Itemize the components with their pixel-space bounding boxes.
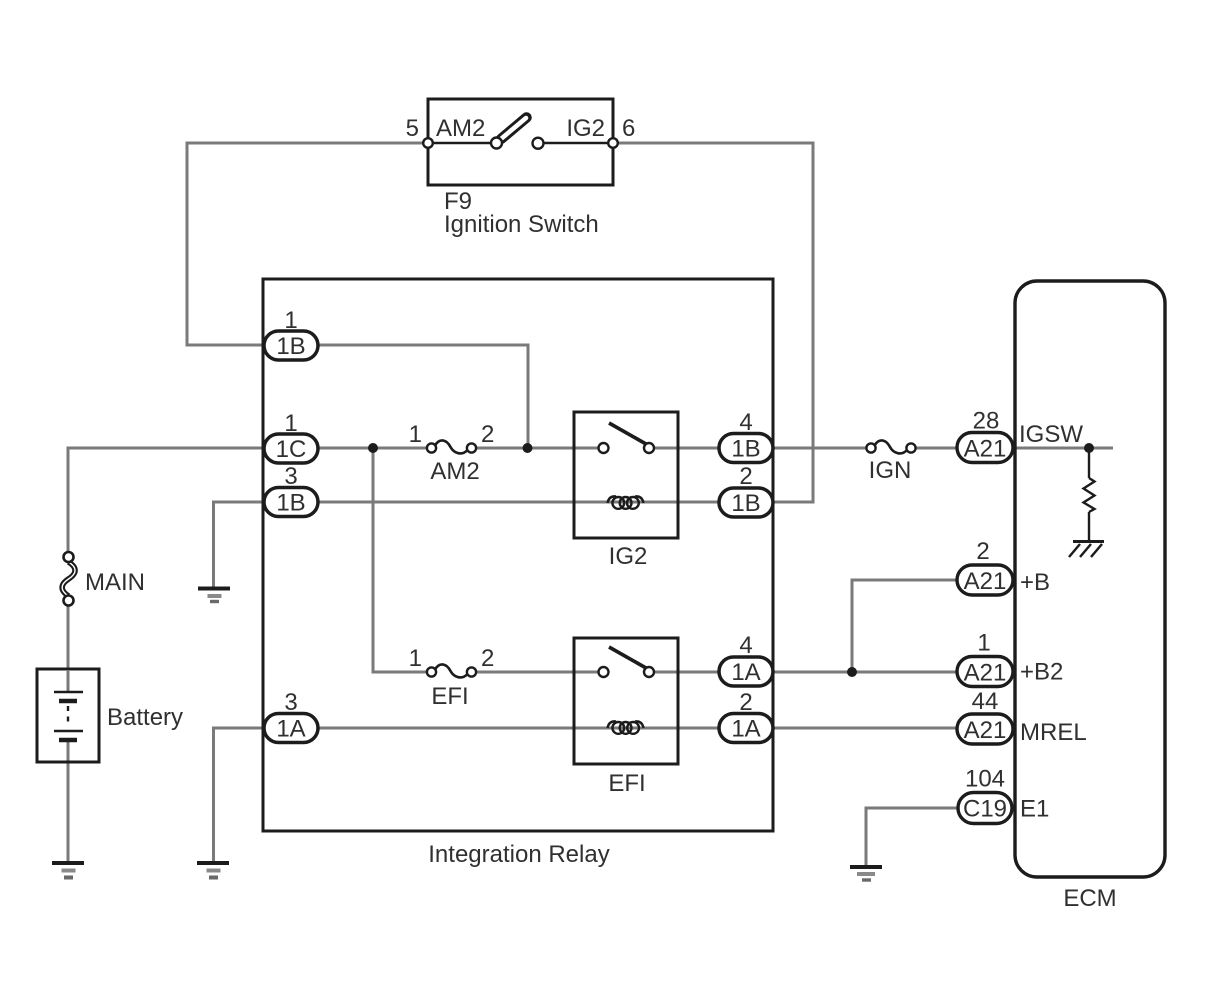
- svg-text:1A: 1A: [731, 659, 760, 686]
- wire: battery feed 1C row left: [68, 448, 264, 553]
- battery: [37, 669, 99, 762]
- svg-text:MAIN: MAIN: [85, 569, 145, 596]
- svg-text:MREL: MREL: [1020, 719, 1087, 746]
- svg-text:4: 4: [739, 409, 752, 436]
- wire: IG2 switch to 1B(4): [653, 447, 719, 450]
- node: +B / +B2 junction: [847, 667, 857, 677]
- svg-text:C19: C19: [963, 796, 1007, 823]
- wire: ignition switch pin5 to left vertical: [187, 143, 428, 345]
- ECM box: [1015, 281, 1165, 877]
- wire: 1C to AM2 fuse: [318, 447, 428, 450]
- svg-text:2: 2: [481, 645, 494, 672]
- relay IG2 switch blade: [609, 423, 646, 444]
- svg-text:A21: A21: [964, 436, 1007, 463]
- svg-text:E1: E1: [1020, 796, 1049, 823]
- svg-text:1: 1: [284, 307, 297, 334]
- svg-text:44: 44: [972, 688, 999, 715]
- ignition switch pin 6 terminal: [608, 138, 618, 148]
- wire: AM2 node down to EFI fuse: [373, 448, 428, 672]
- svg-text:2: 2: [739, 463, 752, 490]
- fuse EFI: [427, 664, 476, 677]
- relay IG2 switch contact left: [599, 443, 609, 453]
- wire: 1A(2) to ECM A21-44 MREL: [773, 727, 957, 730]
- wire: +B branch from node to A21-2: [852, 580, 957, 672]
- integration relay box: [263, 279, 773, 831]
- svg-text:104: 104: [965, 766, 1005, 793]
- relay IG2 coil: [608, 496, 644, 508]
- svg-text:ECM: ECM: [1063, 885, 1116, 912]
- ground: relay 1B(3): [198, 589, 230, 602]
- ignition switch F9 box: [428, 99, 613, 185]
- svg-text:Battery: Battery: [107, 704, 183, 731]
- svg-text:Ignition Switch: Ignition Switch: [444, 211, 599, 238]
- relay EFI switch contact right: [644, 667, 654, 677]
- relay EFI coil: [608, 721, 644, 733]
- ground: ECM E1: [850, 867, 882, 880]
- svg-text:EFI: EFI: [608, 770, 645, 797]
- wire: ignition switch pin6 to right vertical down to relay 1B(2): [613, 143, 813, 502]
- svg-text:6: 6: [622, 115, 635, 142]
- wire: MAIN link to battery: [67, 605, 70, 670]
- svg-text:A21: A21: [964, 717, 1007, 744]
- wire: battery to ground: [67, 740, 70, 862]
- wire: AM2 fuse to IG2 relay switch: [475, 447, 599, 450]
- wire: 1A(3) to ground: [214, 728, 265, 862]
- relay IG2 switch contact right: [644, 443, 654, 453]
- wire: 1A(4) to ECM A21-1 +B2: [773, 671, 957, 674]
- svg-text:1B: 1B: [276, 333, 305, 360]
- svg-text:4: 4: [739, 632, 752, 659]
- wire: 1B(4) to IGN fuse: [773, 447, 867, 450]
- svg-text:1: 1: [284, 410, 297, 437]
- svg-text:A21: A21: [964, 568, 1007, 595]
- ignition switch lever blade: [501, 118, 527, 140]
- connector A21 pin28 IGSW: [957, 433, 1013, 463]
- svg-text:2: 2: [481, 421, 494, 448]
- connector 1A pin3 left: [264, 714, 318, 743]
- MAIN fusible link: [62, 552, 75, 606]
- svg-text:IG2: IG2: [609, 543, 648, 570]
- svg-text:2: 2: [739, 689, 752, 716]
- connector 1C pin1 left: [264, 434, 318, 463]
- wire: IGN fuse to ECM A21-28: [916, 447, 958, 450]
- svg-text:1: 1: [409, 645, 422, 672]
- wire: relay 1B(1) to AM2 fuse output node: [318, 345, 528, 448]
- svg-text:1B: 1B: [276, 490, 305, 517]
- connector 1A pin2 right: [719, 714, 773, 743]
- chassis ground for resistor: [1069, 542, 1104, 558]
- wire: EFI switch to 1A(4): [653, 671, 719, 674]
- relay EFI box: [574, 638, 678, 764]
- relay IG2 box: [574, 412, 678, 538]
- relay EFI switch blade: [609, 647, 646, 668]
- connector 1B pin3 left: [264, 488, 318, 517]
- ignition switch pin 5 terminal: [423, 138, 433, 148]
- svg-text:1: 1: [409, 421, 422, 448]
- svg-text:+B2: +B2: [1020, 659, 1063, 686]
- connector 1B pin2 right: [719, 488, 773, 517]
- svg-text:AM2: AM2: [430, 458, 479, 485]
- relay EFI switch contact left: [599, 667, 609, 677]
- ignition switch internal wire: [428, 142, 613, 144]
- node: AM2 fuse input junction: [368, 443, 378, 453]
- connector 1A pin4 right: [719, 657, 773, 686]
- fuse AM2: [427, 440, 476, 453]
- svg-text:+B: +B: [1020, 569, 1050, 596]
- connector A21 pin2 +B: [957, 565, 1013, 595]
- svg-text:1B: 1B: [731, 490, 760, 517]
- connector A21 pin1 +B2: [957, 657, 1013, 687]
- fuse IGN: [866, 440, 915, 453]
- ground: battery: [52, 863, 84, 878]
- svg-text:Integration Relay: Integration Relay: [428, 841, 609, 868]
- svg-text:5: 5: [406, 115, 419, 142]
- ground: relay 1A(3): [197, 863, 229, 878]
- connector C19 pin104 E1: [958, 793, 1012, 824]
- svg-text:1A: 1A: [731, 716, 760, 743]
- connector 1B pin1 left: [264, 331, 318, 360]
- svg-text:3: 3: [284, 689, 297, 716]
- connector 1B pin4 right: [719, 434, 773, 463]
- svg-text:EFI: EFI: [431, 683, 468, 710]
- wire: 1B(3) to ground: [214, 502, 265, 587]
- ignition switch contact AM2: [491, 138, 502, 149]
- wire: 1B(3) through IG2 coil to 1B(2): [318, 501, 719, 504]
- wire: IGSW internal to pull-down node: [1013, 447, 1113, 450]
- svg-text:IG2: IG2: [566, 115, 605, 142]
- wire: ECM C19 E1 to ground: [866, 808, 958, 866]
- svg-text:A21: A21: [964, 660, 1007, 687]
- svg-text:AM2: AM2: [436, 115, 485, 142]
- svg-text:1B: 1B: [731, 436, 760, 463]
- svg-text:IGN: IGN: [869, 457, 912, 484]
- node: AM2 fuse output junction: [523, 443, 533, 453]
- svg-text:1A: 1A: [276, 716, 305, 743]
- svg-text:28: 28: [973, 408, 1000, 435]
- resistor (IGSW pulldown): [1084, 448, 1095, 541]
- svg-text:2: 2: [976, 538, 989, 565]
- svg-text:1: 1: [977, 630, 990, 657]
- ignition switch contact IG2: [533, 138, 544, 149]
- svg-text:1C: 1C: [276, 436, 307, 463]
- svg-text:3: 3: [284, 463, 297, 490]
- svg-text:IGSW: IGSW: [1019, 421, 1083, 448]
- wire: 1A(3) through EFI coil to 1A(2): [318, 727, 719, 730]
- wire: EFI fuse to EFI relay switch: [475, 671, 599, 674]
- node: IGSW pulldown junction: [1084, 443, 1094, 453]
- connector A21 pin44 MREL: [957, 714, 1013, 744]
